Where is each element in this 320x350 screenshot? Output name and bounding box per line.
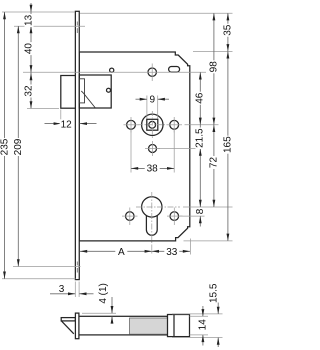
rivet circle mid: [107, 88, 111, 92]
ext line lower screw right: [180, 215, 205, 217]
hub inner circle: [149, 121, 156, 128]
dim line 4(1): [111, 297, 113, 313]
lower screw hole right: [170, 212, 179, 221]
label 98: [209, 60, 218, 73]
dim line 9: [136, 98, 147, 100]
svg-text:165: 165: [222, 136, 233, 153]
label 13: [25, 14, 34, 27]
ext line 4(1) faceplate end: [82, 312, 116, 314]
lower screws crosshairs: [122, 215, 138, 217]
label 33: [164, 247, 179, 256]
label 46: [196, 92, 205, 105]
svg-text:46: 46: [195, 92, 206, 104]
label 165: [223, 136, 232, 154]
euro profile cylinder circle: [142, 197, 162, 217]
ext line latch bottom: [27, 107, 59, 109]
label 72: [209, 156, 218, 169]
small hole below hub: [149, 145, 157, 153]
hub square: [147, 119, 158, 130]
svg-text:14: 14: [197, 319, 208, 331]
hub side hole right: [170, 120, 179, 129]
latch spring diagonal: [81, 91, 95, 108]
dim line 38: [131, 167, 174, 169]
small hole crosshair: [152, 141, 154, 156]
side view faceplate bar: [75, 313, 79, 339]
svg-text:8: 8: [195, 208, 206, 214]
dim line 15.5: [217, 303, 219, 314]
dim line 14: [202, 306, 204, 316]
svg-text:98: 98: [208, 61, 219, 73]
top screw hole: [148, 68, 156, 76]
label 21.5: [196, 128, 205, 150]
svg-text:13: 13: [24, 14, 35, 26]
hub horizontal centerline: [138, 124, 167, 126]
dim line 35/165: [227, 13, 229, 241]
svg-text:209: 209: [13, 138, 24, 155]
ext line top right: [80, 12, 233, 14]
follower hub outer circle: [142, 114, 163, 135]
dim line 209: [17, 26, 19, 266]
svg-text:12: 12: [61, 119, 73, 130]
svg-text:235: 235: [0, 138, 10, 155]
ext line case top right: [193, 51, 233, 53]
side view latch bevel diagonal: [61, 321, 73, 334]
side view right ext lines: [172, 313, 223, 315]
svg-text:40: 40: [24, 43, 35, 55]
dim line 46/21.5/8: [199, 72, 201, 207]
lower screw hole left: [126, 212, 135, 221]
svg-text:72: 72: [208, 157, 219, 169]
dim line 13/40/32: [30, 3, 32, 108]
ext line 235 bottom: [2, 278, 76, 280]
faceplate centerline cross top: [76, 22, 78, 26]
svg-text:35: 35: [222, 24, 233, 36]
ext line 12 dim: [60, 110, 62, 128]
faceplate centerline cross bottom: [76, 262, 78, 266]
svg-text:15.5: 15.5: [209, 283, 220, 303]
oval slot: [169, 67, 180, 73]
ext line 209 bottom: [13, 266, 81, 268]
ext line small hole right: [157, 148, 205, 150]
svg-text:3: 3: [59, 284, 65, 295]
ext line case bottom right: [184, 240, 233, 242]
euro profile slot: [146, 215, 157, 235]
label 35: [223, 24, 232, 37]
svg-text:A: A: [118, 247, 125, 258]
ext line case right edge to A dim: [190, 239, 192, 255]
svg-text:4 (1): 4 (1): [98, 283, 109, 304]
hub vertical centerline: [151, 111, 153, 139]
svg-text:38: 38: [147, 164, 159, 175]
dim line 98/72: [213, 13, 215, 207]
latch mechanism box: [79, 75, 111, 108]
faceplate (front view): [75, 11, 79, 279]
label 14: [198, 318, 207, 331]
hub side holes crosshairs: [124, 124, 139, 126]
dim line 3: [50, 293, 75, 295]
label A: [115, 247, 127, 256]
svg-text:9: 9: [150, 94, 156, 105]
latch bolt protruding: [61, 76, 76, 109]
ext line 13 bottom: [14, 25, 85, 27]
label 32: [25, 85, 34, 98]
cylinder vertical centerline: [151, 192, 153, 254]
side view latch shaft gray: [130, 318, 168, 334]
ext lines 38 dim: [130, 130, 132, 173]
latch tail rectangle: [79, 79, 84, 103]
label 40: [25, 42, 34, 55]
svg-text:21.5: 21.5: [195, 128, 206, 148]
label 12: [60, 119, 73, 129]
rivet circle top: [110, 68, 114, 72]
ext line cylinder centerline right: [183, 206, 233, 208]
dim line A / 33: [80, 250, 190, 252]
ext lines 9 dim: [146, 96, 148, 119]
ext line screw centerline: [23, 71, 206, 73]
label 235: [0, 138, 9, 156]
side view block divider: [173, 315, 175, 337]
ext line hub centerline right: [185, 124, 219, 126]
dim line 235: [4, 12, 6, 279]
label 209: [14, 138, 23, 156]
svg-text:33: 33: [166, 247, 178, 258]
hub side hole left: [127, 120, 136, 129]
top screw crosshair: [151, 64, 153, 82]
lock case outline: [79, 52, 190, 241]
ext lines 3 dim: [74, 282, 76, 298]
side view latch head plate: [61, 318, 75, 321]
label 8: [196, 208, 205, 216]
dim line 12: [45, 123, 61, 125]
ext line faceplate top left: [2, 11, 75, 13]
svg-text:32: 32: [24, 85, 35, 97]
side view case bar: [79, 316, 168, 335]
side view cylinder block: [168, 315, 190, 337]
label 38: [145, 164, 160, 174]
label 9: [149, 94, 157, 104]
ext line cylinder centerline dash: [136, 206, 180, 208]
